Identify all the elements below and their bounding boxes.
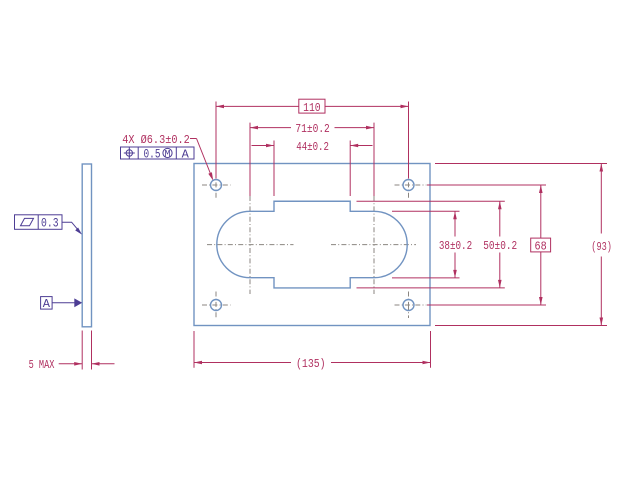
arrows 50 <box>498 201 502 209</box>
svg-text:38±0.2: 38±0.2 <box>439 239 472 253</box>
dim 5max tails <box>59 363 82 365</box>
arrow hole leader <box>208 172 213 180</box>
circled M <box>163 148 172 157</box>
svg-text:M: M <box>164 150 170 161</box>
svg-text:71±0.2: 71±0.2 <box>295 122 329 136</box>
arrows 44 (outside, pointing inward) <box>266 144 274 148</box>
hole top-left <box>211 180 222 191</box>
dim 68 line <box>540 185 542 238</box>
dim 68 extension lines <box>427 184 546 186</box>
svg-text:110: 110 <box>303 101 321 115</box>
central cutout <box>217 201 407 288</box>
dim 50 line <box>499 201 501 236</box>
dim 68 box <box>531 238 551 252</box>
arrows 38 <box>453 211 457 219</box>
svg-text:(93): (93) <box>591 240 612 254</box>
centerline vertical left arc <box>249 196 251 294</box>
front view plate outline <box>194 164 430 326</box>
dim 44 extension lines <box>273 141 275 197</box>
centerline vertical right arc <box>373 196 375 294</box>
svg-text:68: 68 <box>535 240 547 254</box>
dim 135 extension lines <box>193 331 195 368</box>
hole bottom-right <box>403 300 414 311</box>
dim 44 tails <box>252 145 275 147</box>
dim 110 box <box>299 99 325 113</box>
flatness leader <box>62 222 80 232</box>
side view plate outline <box>82 164 91 327</box>
centerline cross hole top-left <box>202 184 231 186</box>
svg-text:0.3: 0.3 <box>41 216 59 231</box>
arrows 5max (outside, pointing inward) <box>74 362 82 366</box>
datum filled triangle <box>74 298 82 307</box>
dim 110 extension lines <box>215 102 217 179</box>
centerline cross hole bottom-right <box>395 304 427 306</box>
dim 38 line <box>454 211 456 236</box>
position symbol <box>126 150 132 156</box>
svg-text:(135): (135) <box>296 357 326 371</box>
arrows 93 <box>600 164 604 172</box>
arrows 135 <box>194 361 202 365</box>
flatness FCF box <box>15 215 63 230</box>
hole bottom-left <box>211 300 222 311</box>
svg-text:0.5: 0.5 <box>144 147 161 162</box>
flatness leader arrowhead <box>75 228 82 235</box>
dim 71 line <box>250 127 291 129</box>
svg-text:A: A <box>182 147 190 161</box>
dim 5max extension lines <box>81 331 83 370</box>
dim 71 extension lines <box>249 123 251 196</box>
dim 50 extension lines <box>357 200 505 202</box>
svg-text:A: A <box>43 297 51 311</box>
dim 38 extension lines <box>392 210 460 212</box>
centerline horizontal left arc <box>207 244 294 246</box>
position FCF box <box>121 147 195 159</box>
dim 93 line <box>600 164 602 234</box>
svg-text:5 MAX: 5 MAX <box>29 358 55 372</box>
dim 93 extension lines <box>435 163 607 165</box>
dim 135 line <box>194 362 291 364</box>
leader hole note <box>190 138 197 140</box>
flatness symbol parallelogram <box>21 218 34 225</box>
svg-text:44±0.2: 44±0.2 <box>296 140 329 154</box>
arrows 68 <box>539 185 543 193</box>
dim 110 line <box>216 105 299 107</box>
svg-text:50±0.2: 50±0.2 <box>483 239 517 253</box>
centerline cross hole bottom-left <box>202 304 231 306</box>
datum leader <box>52 302 75 304</box>
arrows 110 <box>216 105 224 109</box>
centerline cross hole top-right <box>395 184 427 186</box>
datum A box <box>41 297 53 310</box>
arrows 71 <box>250 126 258 130</box>
svg-text:4X Ø6.3±0.2: 4X Ø6.3±0.2 <box>122 133 190 147</box>
centerline horizontal right arc <box>331 244 416 246</box>
hole top-right <box>403 180 414 191</box>
